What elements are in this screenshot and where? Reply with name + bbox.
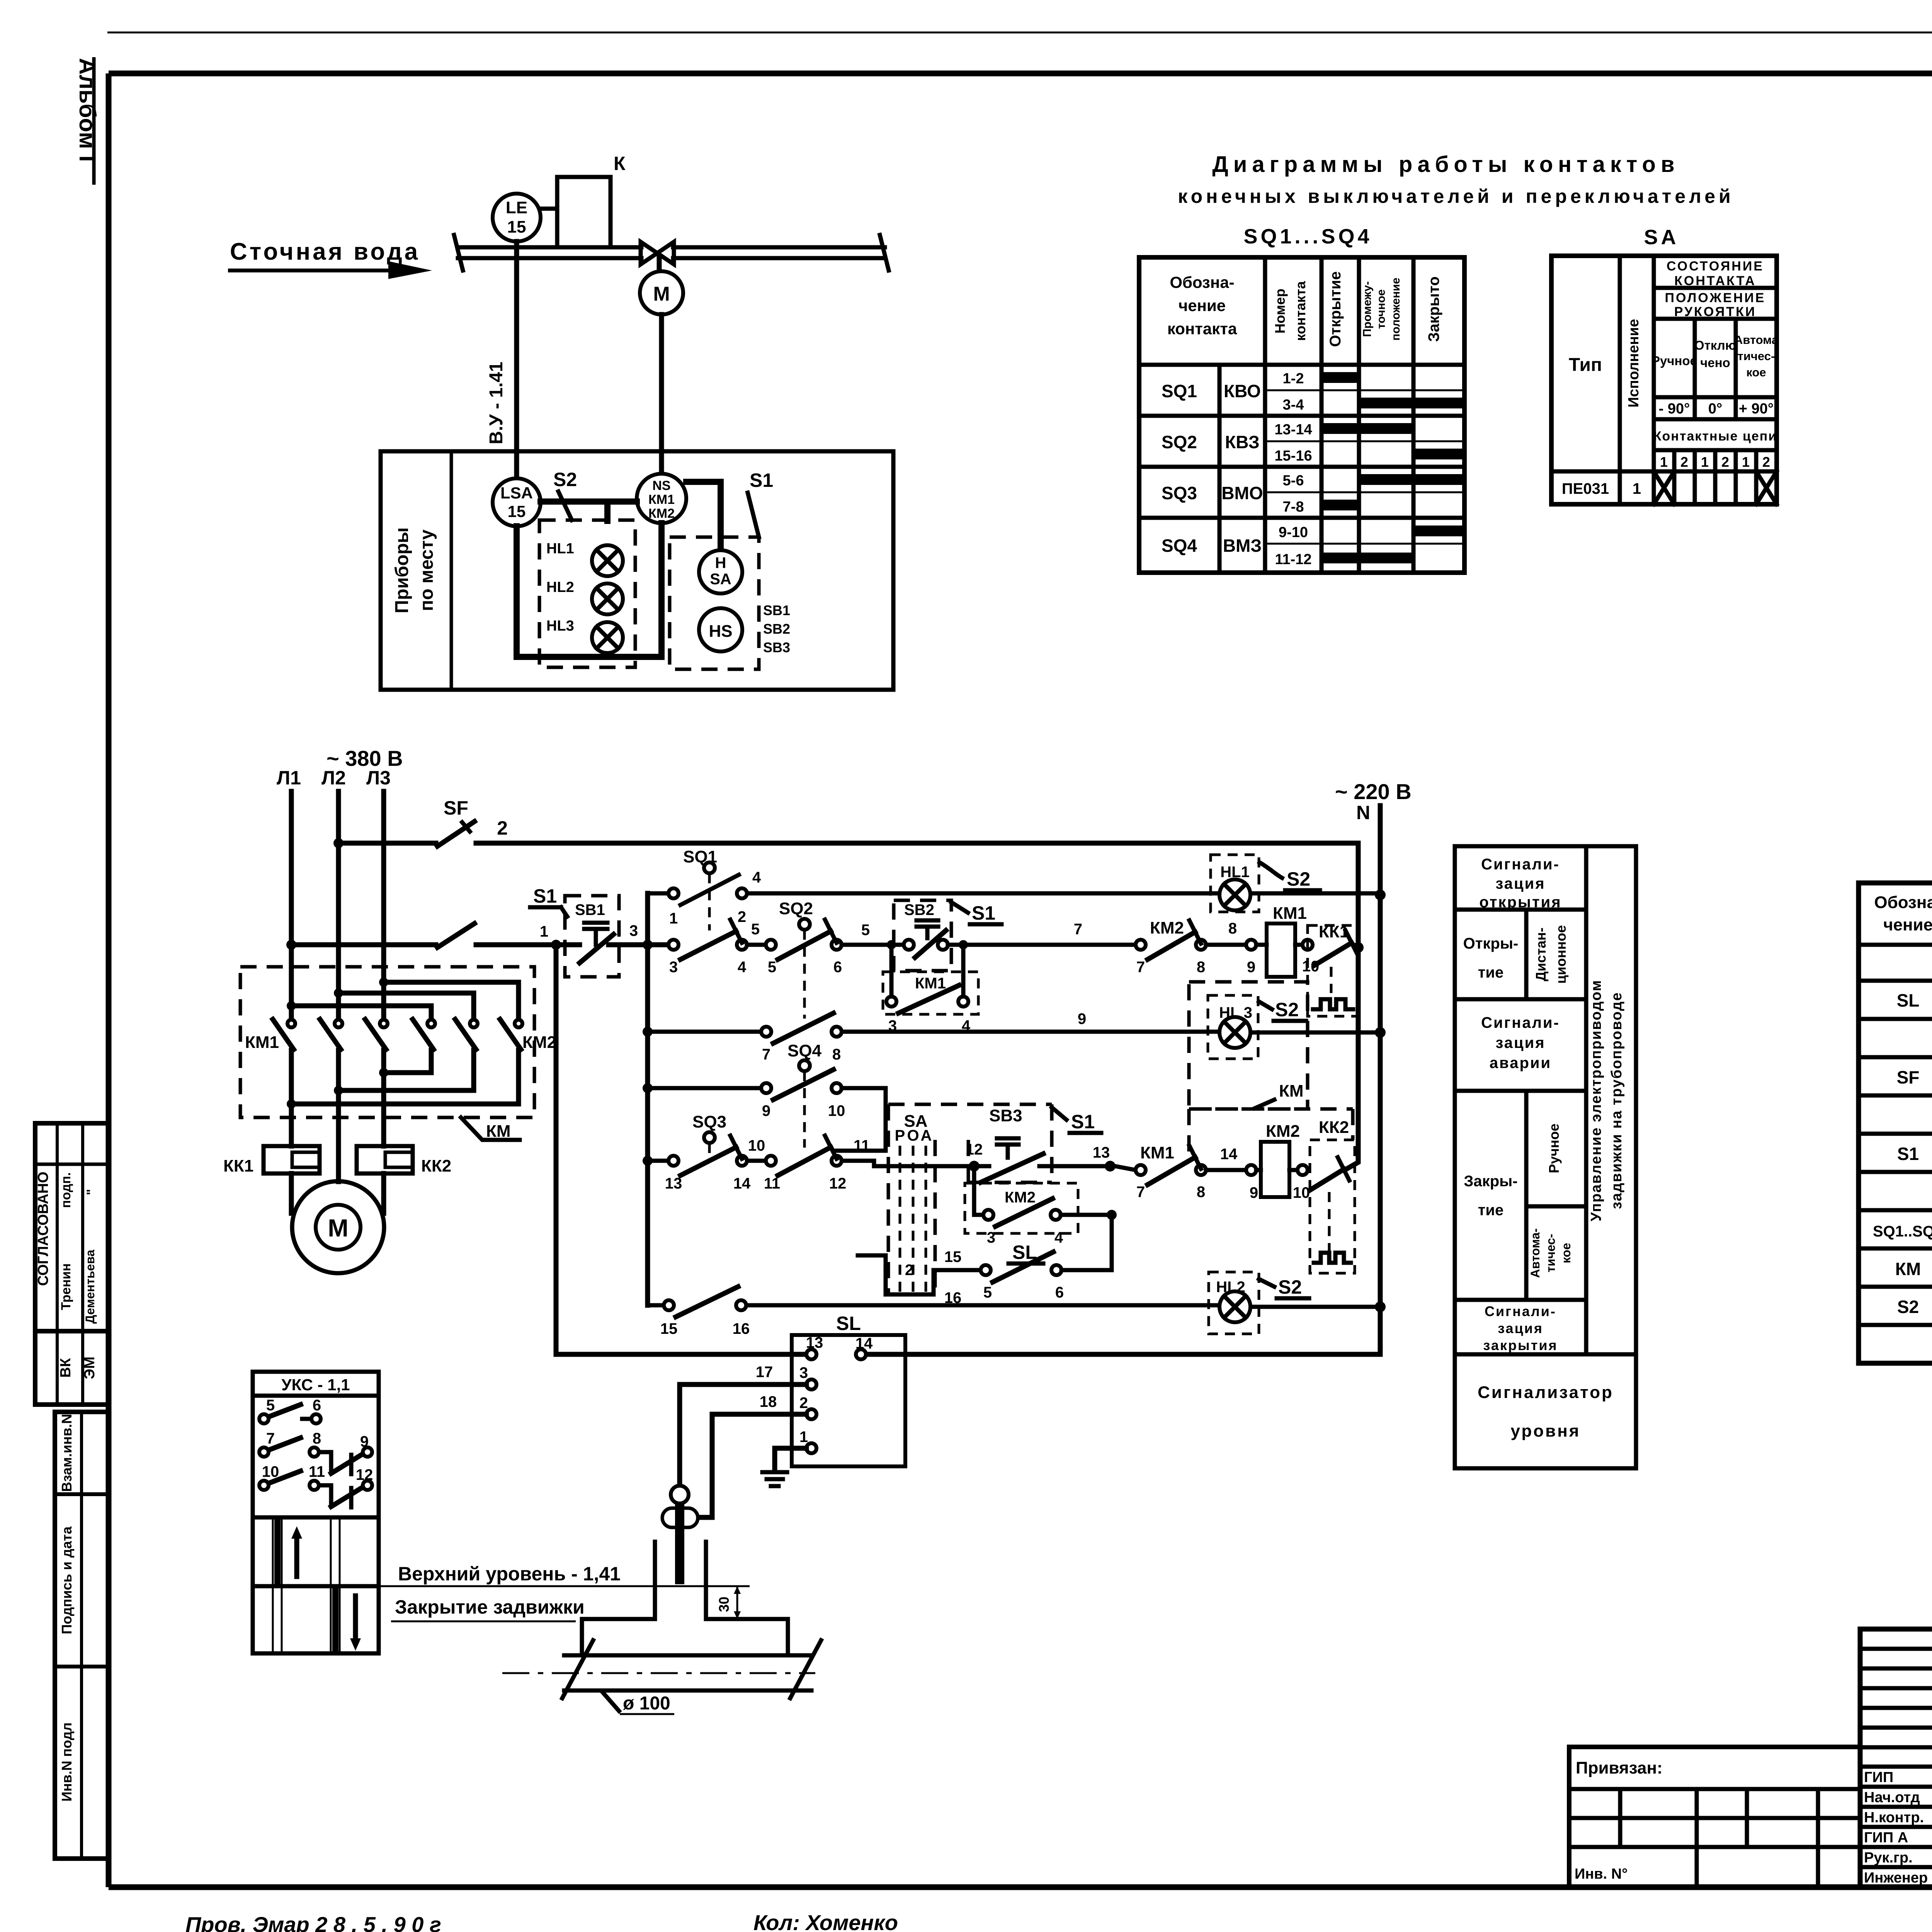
- svg-text:11: 11: [309, 1463, 325, 1480]
- svg-text:КМ2: КМ2: [648, 506, 675, 521]
- svg-text:HS: HS: [709, 622, 732, 641]
- svg-text:Рук.гр.: Рук.гр.: [1864, 1850, 1913, 1866]
- svg-text:SQ1..SQ4: SQ1..SQ4: [1873, 1223, 1932, 1240]
- rung: SQ4 contact 9-10: [648, 1041, 845, 1148]
- KM1 holding contact: [883, 940, 978, 1034]
- wire to SB2: [842, 922, 904, 945]
- level relay contact SL: [858, 1220, 1112, 1306]
- svg-text:3: 3: [987, 1229, 995, 1246]
- lamp HL1 with box: [1211, 855, 1259, 912]
- svg-text:15: 15: [944, 1248, 962, 1265]
- svg-text:3: 3: [669, 959, 678, 976]
- svg-text:14: 14: [855, 1335, 873, 1352]
- album label: [75, 57, 100, 185]
- motor drive M on valve: [640, 258, 683, 315]
- limit switch SQ3 contact 13-14: [665, 1112, 765, 1192]
- svg-text:SQ1...SQ4: SQ1...SQ4: [1243, 225, 1372, 248]
- phase L2 wire: [336, 791, 341, 1182]
- impulse line B.U-1.41: [486, 241, 517, 478]
- KM2 feed wire from L3: [379, 978, 519, 1020]
- svg-text:30: 30: [716, 1597, 732, 1612]
- svg-text:6: 6: [313, 1397, 321, 1414]
- svg-text:10: 10: [748, 1137, 765, 1154]
- svg-text:5: 5: [768, 959, 776, 976]
- svg-text:КВЗ: КВЗ: [1225, 432, 1260, 452]
- wire LSA bottom loop: [517, 523, 662, 657]
- SL return wire 14 to N: [866, 1352, 1380, 1357]
- svg-text:S2: S2: [1287, 868, 1310, 890]
- svg-text:КК2: КК2: [1319, 1118, 1349, 1137]
- svg-text:ВМО: ВМО: [1221, 483, 1263, 503]
- svg-text:SB1: SB1: [763, 602, 790, 618]
- lamp HL1: [546, 541, 623, 576]
- svg-text:КМ1: КМ1: [245, 1033, 279, 1052]
- svg-text:ционное: ционное: [1553, 925, 1569, 984]
- svg-text:1: 1: [1633, 480, 1641, 497]
- svg-text:9: 9: [1078, 1010, 1086, 1027]
- thermal relay KK1: [223, 1146, 320, 1175]
- contact state bars: [1321, 372, 1359, 383]
- svg-text:Н.контр.: Н.контр.: [1864, 1810, 1924, 1826]
- svg-text:Сигнали-: Сигнали-: [1485, 1303, 1556, 1319]
- pipe left segment: [454, 235, 641, 270]
- svg-text:Л2: Л2: [321, 767, 346, 789]
- buttons HS: [699, 602, 790, 655]
- node L1 to rail 2: [286, 940, 296, 950]
- svg-text:Кол: Хоменко: Кол: Хоменко: [753, 1910, 898, 1932]
- svg-text:тие: тие: [1478, 1202, 1503, 1219]
- node HL1-N: [1375, 889, 1386, 900]
- svg-text:тичес-: тичес-: [1544, 1234, 1558, 1272]
- svg-text:КМ1: КМ1: [1273, 904, 1307, 923]
- svg-text:1: 1: [540, 923, 548, 940]
- svg-text:Приборы: Приборы: [392, 527, 412, 614]
- svg-text:8: 8: [1228, 920, 1237, 937]
- thermowell K: [557, 153, 626, 247]
- svg-text:ПЕ031: ПЕ031: [1562, 480, 1609, 497]
- svg-text:SB3: SB3: [763, 639, 790, 655]
- svg-text:чение: чение: [1883, 915, 1932, 934]
- svg-text:5: 5: [266, 1397, 275, 1414]
- svg-text:14: 14: [1220, 1146, 1238, 1163]
- KM2 return wire to L3: [379, 1050, 431, 1077]
- svg-text:S2: S2: [1897, 1297, 1919, 1317]
- UKS contact 7-8-9: [259, 1430, 372, 1474]
- svg-text:Альбом I: Альбом I: [75, 58, 100, 162]
- KM2 contact pole 1: [413, 1019, 435, 1049]
- svg-text:SA: SA: [710, 571, 731, 588]
- KM2 feed wire from L1: [287, 1001, 431, 1020]
- svg-text:2: 2: [905, 1262, 913, 1279]
- sensor chamber: [582, 1542, 788, 1655]
- svg-text:подп.: подп.: [59, 1172, 73, 1208]
- svg-text:S2: S2: [553, 469, 577, 490]
- svg-text:Сигнализатор: Сигнализатор: [1478, 1383, 1614, 1402]
- svg-text:10: 10: [1293, 1184, 1310, 1201]
- phase L3 wire: [381, 791, 386, 1213]
- contactor coil KM1: [1256, 904, 1319, 977]
- svg-text:9-10: 9-10: [1279, 524, 1308, 541]
- svg-text:16: 16: [733, 1320, 750, 1337]
- selector H SA: [699, 550, 742, 594]
- starter indication NS KM1 KM2: [637, 474, 686, 523]
- limit switch SQ2 contact 5-6: [766, 899, 842, 1019]
- svg-text:SA: SA: [1644, 226, 1679, 249]
- KM group dashed outline: [1189, 1082, 1353, 1153]
- svg-text:+ 90°: + 90°: [1739, 401, 1774, 417]
- svg-text:КМ2: КМ2: [1150, 918, 1184, 937]
- svg-text:11-12: 11-12: [1275, 551, 1311, 568]
- svg-text:11: 11: [764, 1175, 780, 1192]
- right feed vertical from rail 2: [1345, 843, 1358, 1170]
- rung: opening signal wire 4: [648, 891, 1375, 896]
- svg-text:8: 8: [1197, 1184, 1205, 1201]
- svg-text:LE: LE: [506, 198, 527, 217]
- svg-text:УКС - 1,1: УКС - 1,1: [281, 1376, 350, 1394]
- svg-text:2: 2: [799, 1395, 808, 1412]
- stop button SB1: [575, 901, 614, 963]
- svg-text:4: 4: [1054, 1229, 1063, 1246]
- KM2 return wire to L2: [334, 1050, 474, 1095]
- svg-text:13: 13: [665, 1175, 682, 1192]
- svg-text:Р: Р: [895, 1127, 905, 1144]
- rung: closing circuit wires 13-14: [648, 1161, 969, 1166]
- svg-text:1: 1: [669, 910, 678, 927]
- svg-text:15-16: 15-16: [1274, 448, 1312, 464]
- svg-text:СОГЛАСОВАНО: СОГЛАСОВАНО: [35, 1172, 51, 1286]
- svg-text:зация: зация: [1495, 1034, 1545, 1051]
- label S2 for HL1: [1260, 862, 1320, 890]
- lower left stamp box: [55, 1412, 108, 1859]
- svg-text:1: 1: [1742, 454, 1750, 470]
- KM2 holding contact: [965, 1172, 1117, 1246]
- svg-text:точное: точное: [1375, 289, 1388, 329]
- svg-text:ГИП: ГИП: [1864, 1769, 1893, 1786]
- valve (задвижка): [641, 242, 674, 264]
- svg-text:S1: S1: [750, 469, 773, 491]
- svg-text:6: 6: [1055, 1284, 1064, 1301]
- svg-text:аварии: аварии: [1490, 1054, 1551, 1071]
- svg-text:7: 7: [266, 1430, 275, 1447]
- svg-text:ПОЛОЖЕНИЕ: ПОЛОЖЕНИЕ: [1665, 291, 1766, 305]
- svg-text:1: 1: [799, 1429, 808, 1446]
- svg-text:чение: чение: [1179, 296, 1226, 315]
- svg-text:КМ: КМ: [1895, 1259, 1921, 1279]
- svg-text:SL: SL: [1897, 990, 1920, 1010]
- svg-text:Пров. Эмар 2 8 . 5 . 9 0 г: Пров. Эмар 2 8 . 5 . 9 0 г: [185, 1912, 441, 1932]
- limit switch SQ4 contact 11-12: [764, 1136, 870, 1192]
- svg-text:8: 8: [832, 1046, 841, 1063]
- svg-text:Инженер: Инженер: [1864, 1870, 1928, 1886]
- wire 14b: [1206, 1146, 1258, 1201]
- svg-text:Л1: Л1: [277, 767, 301, 789]
- svg-text:SQ4: SQ4: [787, 1041, 822, 1060]
- svg-text:SB3: SB3: [989, 1106, 1022, 1125]
- svg-text:11: 11: [854, 1137, 870, 1154]
- svg-text:Закрытие задвижки: Закрытие задвижки: [395, 1596, 585, 1618]
- svg-text:S1: S1: [1897, 1144, 1919, 1164]
- svg-text:SB2: SB2: [763, 621, 790, 637]
- svg-text:7: 7: [1136, 1184, 1145, 1201]
- svg-text:Взам.инв.N: Взам.инв.N: [59, 1414, 75, 1492]
- KM2 contact pole 2: [455, 1019, 478, 1049]
- svg-text:2: 2: [738, 908, 746, 925]
- svg-text:КМ2: КМ2: [1005, 1189, 1036, 1206]
- SA switch table: [1551, 256, 1779, 504]
- svg-text:Управление электроприводом: Управление электроприводом: [1588, 980, 1604, 1221]
- svg-text:Отклю: Отклю: [1694, 338, 1736, 352]
- svg-text:М: М: [653, 283, 670, 305]
- svg-text:17: 17: [756, 1364, 773, 1381]
- svg-text:5: 5: [861, 922, 870, 939]
- motor M: [292, 1181, 384, 1273]
- svg-text:чено: чено: [1700, 355, 1730, 370]
- svg-text:зация: зация: [1498, 1320, 1543, 1336]
- svg-text:12: 12: [829, 1175, 847, 1192]
- UKS contact 5-6: [259, 1397, 321, 1423]
- svg-text:5-6: 5-6: [1283, 473, 1304, 489]
- svg-text:8: 8: [313, 1430, 321, 1447]
- pipe diameter label: [603, 1692, 674, 1714]
- breaker SF: [338, 797, 474, 846]
- svg-text:тие: тие: [1478, 964, 1503, 981]
- contactor KM1 NC interlock: [1136, 1143, 1206, 1201]
- svg-text:ЭМ: ЭМ: [82, 1357, 98, 1379]
- lamp HL3 with boxes: [1189, 982, 1308, 1109]
- wire 14 right section: [1115, 1166, 1136, 1170]
- svg-text:SL: SL: [836, 1313, 861, 1334]
- svg-text:SL: SL: [1012, 1242, 1037, 1263]
- svg-text:9: 9: [1250, 1184, 1258, 1201]
- svg-text:S2: S2: [1275, 999, 1299, 1020]
- ground symbol: [762, 1448, 806, 1486]
- sewage water inlet label: [228, 238, 432, 279]
- wire 5: [747, 921, 766, 945]
- limit switch SQ2 contact 7-8: [761, 1013, 842, 1063]
- svg-text:ВК: ВК: [58, 1358, 74, 1378]
- svg-text:13: 13: [806, 1334, 823, 1351]
- pipe right segment: [673, 235, 889, 270]
- svg-text:А: А: [921, 1127, 932, 1144]
- wire 2 top rail: [476, 817, 1358, 843]
- lamp box S2: [539, 469, 635, 667]
- wire 8: [1206, 920, 1256, 976]
- svg-text:2: 2: [497, 817, 508, 839]
- svg-text:12: 12: [966, 1141, 983, 1158]
- svg-text:SQ3: SQ3: [1162, 483, 1197, 503]
- svg-text:кое: кое: [1746, 366, 1766, 379]
- svg-text:7: 7: [1136, 959, 1145, 976]
- svg-text:2: 2: [1680, 454, 1688, 470]
- svg-text:КМ: КМ: [1279, 1082, 1304, 1100]
- SQ contact diagram table: [1139, 257, 1464, 573]
- svg-text:Промежу-: Промежу-: [1361, 281, 1374, 337]
- svg-text:Контактные цепи: Контактные цепи: [1653, 429, 1777, 444]
- svg-text:S1: S1: [533, 885, 557, 907]
- svg-text:М: М: [328, 1214, 348, 1242]
- node HL3-N: [1375, 1027, 1386, 1038]
- svg-text:8: 8: [1197, 959, 1205, 976]
- svg-text:S1: S1: [1071, 1111, 1095, 1133]
- svg-text:1: 1: [1701, 454, 1709, 470]
- svg-text:Верхний уровень - 1,41: Верхний уровень - 1,41: [398, 1563, 621, 1585]
- svg-text:КМ1: КМ1: [1140, 1143, 1174, 1162]
- svg-text:Автома-: Автома-: [1528, 1228, 1542, 1278]
- svg-text:7-8: 7-8: [1283, 499, 1304, 515]
- svg-text:Закры-: Закры-: [1464, 1173, 1517, 1190]
- svg-text:SF: SF: [1897, 1067, 1920, 1087]
- svg-text:Закрыто: Закрыто: [1425, 276, 1442, 342]
- svg-text:2: 2: [1721, 454, 1729, 470]
- svg-text:КМ2: КМ2: [1266, 1122, 1300, 1141]
- dimension 30: [716, 1586, 741, 1619]
- svg-text:конечных выключателей и перекл: конечных выключателей и переключателей: [1178, 185, 1734, 207]
- upper left stamp box: [35, 1123, 108, 1405]
- svg-text:по месту: по месту: [417, 529, 437, 611]
- svg-text:закрытия: закрытия: [1483, 1337, 1558, 1353]
- svg-text:ВМЗ: ВМЗ: [1223, 536, 1262, 556]
- svg-text:SQ2: SQ2: [1162, 432, 1197, 452]
- svg-text:SQ1: SQ1: [1162, 381, 1197, 401]
- svg-text:HL3: HL3: [546, 618, 574, 634]
- supply feed to SL terminal 13: [551, 940, 806, 1354]
- handwritten check notes: [185, 1910, 898, 1932]
- svg-text:В.У - 1.41: В.У - 1.41: [486, 362, 507, 444]
- svg-text:SQ1: SQ1: [683, 847, 717, 866]
- svg-text:Диаграммы работы контактов: Диаграммы работы контактов: [1212, 152, 1679, 177]
- svg-text:": ": [84, 1189, 99, 1195]
- svg-text:HL1: HL1: [546, 541, 574, 557]
- svg-text:О: О: [907, 1127, 919, 1144]
- UKS contact 10-11-12: [259, 1463, 373, 1507]
- svg-text:Привязан:: Привязан:: [1576, 1759, 1663, 1777]
- svg-text:~ 220 В: ~ 220 В: [1335, 779, 1412, 804]
- KM1 contact pole 3: [365, 1019, 388, 1049]
- svg-text:5: 5: [983, 1284, 992, 1301]
- component list table: [1859, 883, 1932, 1363]
- wire 7 to KM2 NC: [948, 921, 1136, 945]
- svg-text:13-14: 13-14: [1274, 422, 1312, 438]
- level mark text: [379, 1563, 750, 1621]
- svg-text:Н: Н: [715, 554, 726, 571]
- lamp HL2: [546, 579, 623, 614]
- svg-text:2: 2: [1762, 454, 1770, 470]
- ladder left bus: [643, 893, 653, 1305]
- svg-text:уровня: уровня: [1511, 1422, 1581, 1440]
- svg-text:кое: кое: [1559, 1243, 1573, 1264]
- control post box S1: [670, 469, 773, 669]
- svg-text:LSA: LSA: [500, 484, 533, 502]
- svg-text:Сигнали-: Сигнали-: [1481, 1014, 1560, 1031]
- title block grid: [1860, 1629, 1932, 1887]
- svg-text:7: 7: [1074, 921, 1082, 938]
- contactor KM2 NC interlock: [1136, 918, 1206, 976]
- svg-text:Подпись и дата: Подпись и дата: [59, 1526, 75, 1634]
- KM2 contact pole 3: [500, 1019, 522, 1049]
- svg-text:15: 15: [660, 1320, 678, 1337]
- diagrams heading: [1178, 152, 1734, 207]
- svg-text:контакта: контакта: [1293, 281, 1308, 341]
- svg-text:Номер: Номер: [1272, 289, 1288, 333]
- limit switch SQ1 contact 1-2: [668, 847, 761, 930]
- phase L1 wire: [289, 791, 294, 1213]
- KM1 contact pole 1: [273, 1019, 295, 1049]
- svg-text:Дементьева: Дементьева: [83, 1250, 97, 1324]
- svg-text:N: N: [1356, 802, 1370, 823]
- svg-text:открытия: открытия: [1479, 894, 1561, 911]
- svg-text:КОНТАКТА: КОНТАКТА: [1674, 274, 1756, 288]
- svg-text:Тренин: Тренин: [59, 1263, 73, 1310]
- thermal contact KK2: [1310, 1118, 1355, 1273]
- level alarm LSA 15: [493, 478, 541, 526]
- svg-text:4: 4: [738, 959, 747, 976]
- svg-text:SQ3: SQ3: [692, 1112, 726, 1131]
- rung: closing signal wires 15-16: [648, 1287, 1375, 1337]
- svg-text:Исполнение: Исполнение: [1626, 319, 1642, 407]
- level controller SL box: [792, 1313, 905, 1466]
- svg-text:КМ1: КМ1: [915, 975, 946, 992]
- svg-text:15: 15: [508, 502, 526, 520]
- control post S1 box with SB1: [530, 885, 619, 977]
- svg-text:КМ2: КМ2: [522, 1033, 556, 1052]
- svg-text:0°: 0°: [1708, 401, 1722, 417]
- svg-text:контакта: контакта: [1167, 320, 1237, 338]
- svg-text:Открытие: Открытие: [1327, 271, 1344, 347]
- svg-text:9: 9: [762, 1102, 770, 1119]
- electrode probe: [662, 1486, 698, 1584]
- open button SB2 in S1 box: [894, 900, 1002, 971]
- lamp HL3: [546, 618, 623, 653]
- svg-text:- 90°: - 90°: [1659, 401, 1690, 417]
- svg-text:ø 100: ø 100: [623, 1693, 670, 1714]
- wire 3: [609, 922, 668, 945]
- svg-text:Ручное: Ручное: [1546, 1124, 1562, 1173]
- svg-text:Тип: Тип: [1569, 355, 1602, 375]
- paper top edge line: [107, 32, 1932, 34]
- rung: alarm signal wire 9: [648, 1010, 1375, 1032]
- svg-text:SB2: SB2: [904, 901, 934, 918]
- svg-text:Откры-: Откры-: [1463, 935, 1519, 952]
- svg-text:Автома: Автома: [1734, 333, 1779, 347]
- svg-text:SQ2: SQ2: [779, 899, 813, 918]
- svg-text:S2: S2: [1278, 1276, 1302, 1298]
- svg-text:К: К: [614, 153, 626, 174]
- svg-text:7: 7: [762, 1046, 770, 1063]
- contactor coil KM2: [1256, 1122, 1310, 1201]
- close button SB3 in S1 box: [966, 1104, 1116, 1182]
- level device UKS-1,1 diagram box: [253, 1372, 379, 1653]
- svg-text:SQ4: SQ4: [1162, 536, 1197, 556]
- KM reversing contactor dashed box: [240, 967, 534, 1117]
- svg-text:РУКОЯТКИ: РУКОЯТКИ: [1674, 304, 1757, 319]
- svg-text:10: 10: [828, 1102, 845, 1119]
- wire LSA to NS: [541, 502, 637, 521]
- svg-text:3: 3: [629, 922, 638, 939]
- pipe with break marks: [502, 1640, 821, 1698]
- svg-text:Инв. N°: Инв. N°: [1575, 1866, 1628, 1882]
- svg-text:КВО: КВО: [1224, 381, 1261, 401]
- wire NS to S1 post: [686, 482, 721, 550]
- function description column: [1455, 846, 1636, 1468]
- svg-text:Сточная вода: Сточная вода: [230, 238, 420, 265]
- lamp HL2 with box: [1209, 1272, 1309, 1334]
- svg-text:зация: зация: [1495, 875, 1545, 892]
- svg-text:ГИП А: ГИП А: [1864, 1830, 1908, 1846]
- svg-text:15: 15: [507, 218, 526, 236]
- svg-text:КК2: КК2: [421, 1156, 451, 1175]
- svg-text:3-4: 3-4: [1283, 397, 1304, 413]
- limit switch SQ1 contact 3-4: [668, 920, 747, 976]
